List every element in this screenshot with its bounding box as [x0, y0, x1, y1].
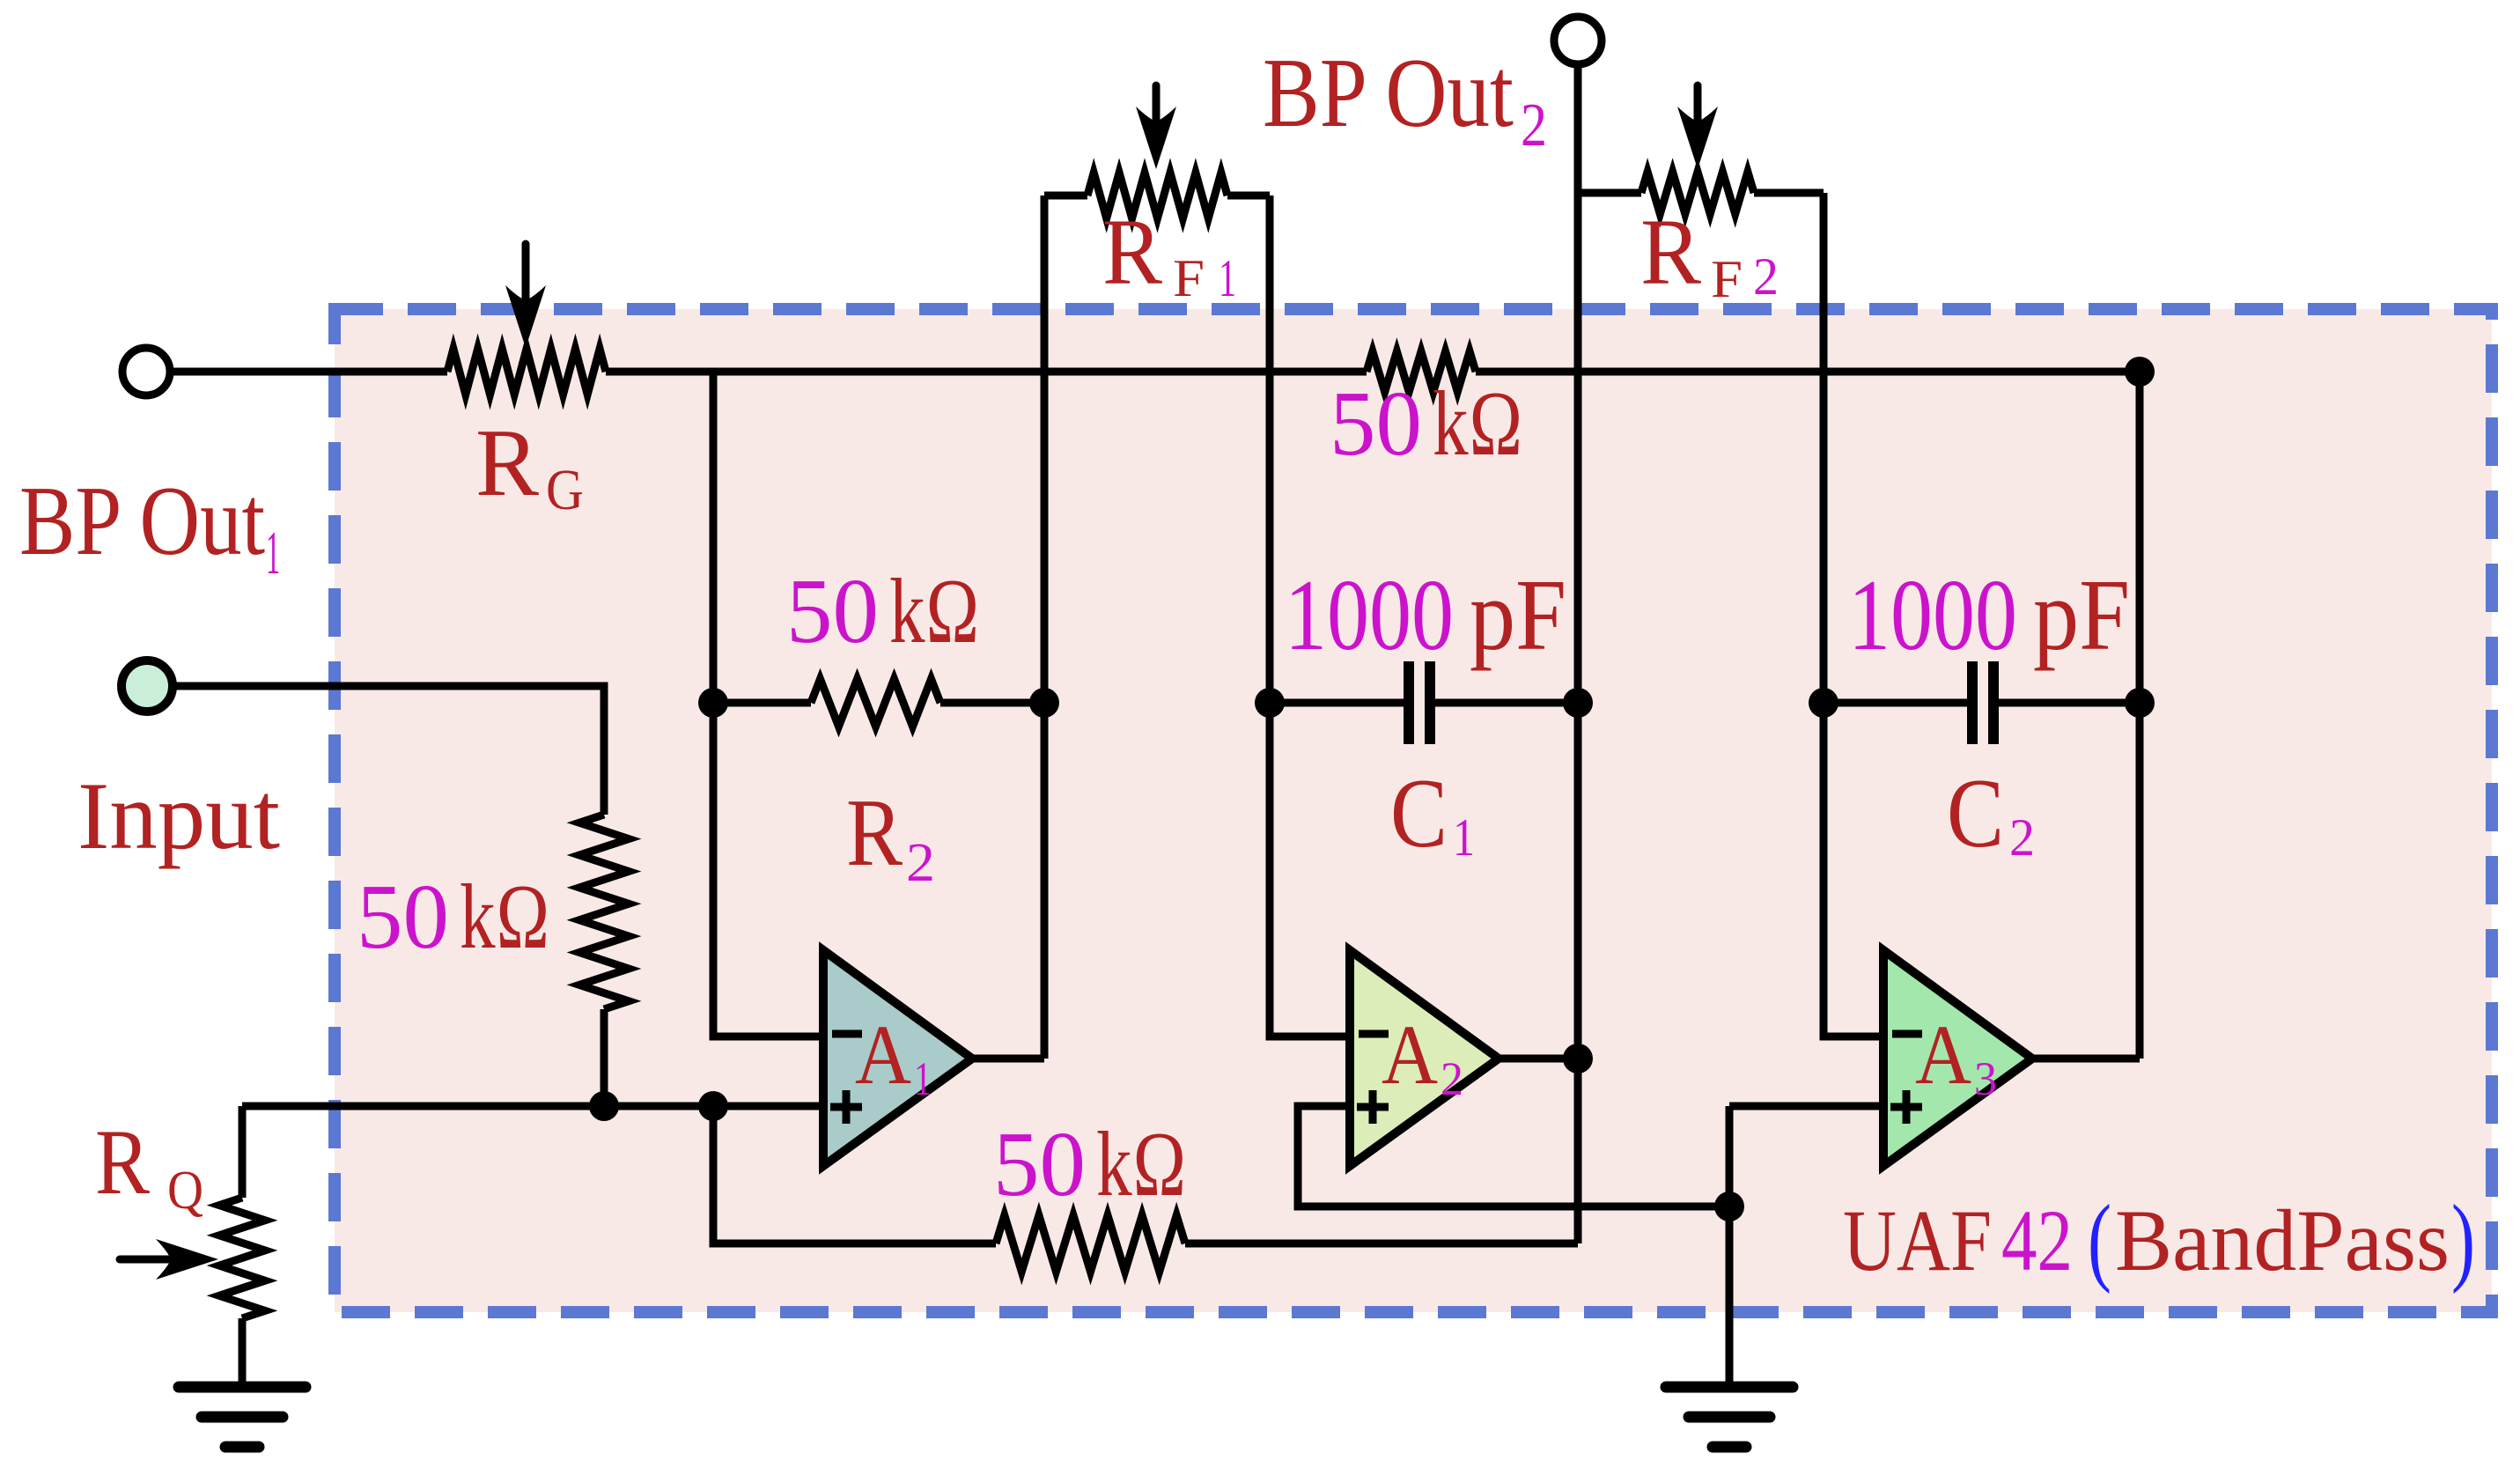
ground below A3 + node — [1666, 1387, 1793, 1447]
svg-text:3: 3 — [1974, 1052, 1997, 1105]
label RQ — [95, 1110, 203, 1221]
node R2 right — [1029, 688, 1059, 718]
node A2 output — [1563, 1044, 1593, 1074]
svg-text:2: 2 — [1441, 1052, 1463, 1105]
resistor RQ (potentiometer with arrow, vertical) — [120, 1198, 265, 1318]
svg-text:50: 50 — [1330, 372, 1422, 475]
svg-text:50: 50 — [993, 1112, 1086, 1215]
svg-text:R: R — [475, 409, 539, 516]
label C1 — [1390, 759, 1475, 868]
svg-text:1: 1 — [1453, 808, 1475, 867]
terminal Input — [122, 660, 173, 712]
svg-text:Input: Input — [77, 763, 280, 869]
svg-text:2: 2 — [1753, 247, 1779, 306]
svg-text:1000: 1000 — [1285, 559, 1454, 671]
svg-text:kΩ: kΩ — [1433, 372, 1523, 475]
label C2 — [1947, 759, 2035, 868]
node C2 right — [2125, 688, 2155, 718]
svg-text:50: 50 — [357, 865, 449, 968]
resistor RF2 (potentiometer with arrow) — [1641, 85, 1754, 214]
terminal BP Out1 — [122, 348, 170, 395]
UAF42 chip boundary (pink region with dashed blue border) — [335, 309, 2492, 1312]
wire: A3 output up right column to top rail — [2032, 372, 2140, 1059]
svg-text:BP Out: BP Out — [19, 467, 265, 576]
svg-text:F: F — [1711, 250, 1743, 308]
svg-text:BandPass: BandPass — [2115, 1192, 2450, 1289]
svg-text:): ) — [2451, 1185, 2475, 1295]
resistor RG (potentiometer with arrow) — [447, 244, 606, 395]
wire: RF1 bridge leads — [1044, 192, 1270, 200]
capacitor C1 — [1409, 661, 1430, 744]
svg-text:kΩ: kΩ — [889, 559, 980, 662]
node C1 left — [1255, 688, 1285, 718]
wire: A3 non-inverting input from ground node — [1729, 1106, 1883, 1382]
op-amp A3 — [1883, 950, 2032, 1166]
svg-text:A: A — [1915, 1007, 1971, 1102]
node C1 right / BP Out2 — [1563, 688, 1593, 718]
wire: bottom 50k feedback from A1 + node to A2 output — [713, 1106, 1578, 1243]
label RF1 — [1102, 201, 1236, 307]
svg-text:kΩ: kΩ — [460, 865, 550, 968]
label 50kOhm R2 value — [786, 559, 980, 662]
capacitor C2 — [1972, 661, 1993, 744]
wire: top rail from BP Out1 through RG and 50k top — [171, 368, 2140, 376]
label BP Out2 — [1263, 39, 1547, 159]
svg-text:A: A — [1382, 1007, 1438, 1102]
wire: A2 non-inverting input loop to ground node — [1298, 1106, 1729, 1206]
node R2 left — [698, 688, 728, 718]
svg-text:1: 1 — [266, 520, 280, 587]
label Input — [77, 763, 280, 869]
ground below RQ — [179, 1387, 306, 1447]
svg-text:kΩ: kΩ — [1096, 1112, 1187, 1215]
label R2 — [846, 779, 935, 893]
wire: A1 non-inverting input rail — [242, 1103, 823, 1110]
op-amp A1 — [823, 950, 972, 1166]
svg-text:Q: Q — [167, 1161, 203, 1221]
wire: RF2 bridge leads — [1578, 189, 1824, 197]
wire: R2 leads — [713, 699, 1044, 707]
svg-text:R: R — [1102, 201, 1163, 305]
svg-text:2: 2 — [906, 833, 935, 893]
resistor 50k input (vertical) — [579, 815, 629, 1009]
svg-text:pF: pF — [2033, 559, 2130, 671]
wire: C2 leads — [1824, 699, 2140, 707]
wire: Input lead down through input 50k resistor — [173, 686, 604, 1106]
node top rail right — [2125, 357, 2155, 387]
svg-text:1: 1 — [914, 1052, 932, 1105]
wire: RF2 right leg down to C2 left / A3 inverting input — [1824, 193, 1883, 1037]
label RF2 — [1640, 201, 1779, 308]
label UAF42 (BandPass) — [1843, 1185, 2475, 1295]
wire: RF1 right leg down to C1 left / A2 inverting input — [1270, 196, 1350, 1037]
svg-text:2: 2 — [1521, 92, 1547, 159]
svg-text:F: F — [1173, 249, 1205, 307]
label RG — [475, 409, 584, 522]
svg-text:UAF: UAF — [1843, 1192, 1992, 1289]
node A1 + input — [698, 1091, 728, 1121]
label 1000pF C1 — [1285, 559, 1566, 671]
svg-text:pF: pF — [1470, 559, 1566, 671]
svg-text:50: 50 — [786, 559, 879, 662]
wire: A2 output to node — [1499, 1055, 1578, 1063]
resistor R2 — [811, 679, 940, 727]
svg-text:2: 2 — [2009, 808, 2035, 867]
label BP Out1 — [19, 467, 280, 587]
wire: C1 leads — [1270, 699, 1578, 707]
svg-text:(: ( — [2088, 1185, 2111, 1295]
svg-text:1: 1 — [1219, 249, 1236, 307]
label 50kOhm top — [1330, 372, 1523, 475]
terminal BP Out2 — [1554, 17, 1602, 64]
svg-text:C: C — [1947, 759, 2004, 868]
node C2 left — [1809, 688, 1838, 718]
svg-text:1000: 1000 — [1848, 559, 2017, 671]
resistor 50k bottom — [996, 1215, 1185, 1272]
svg-text:A: A — [855, 1007, 911, 1102]
svg-text:G: G — [546, 458, 584, 522]
svg-text:42: 42 — [2001, 1192, 2073, 1289]
label 50kOhm input resistor — [357, 865, 550, 968]
resistor 50k top — [1367, 351, 1476, 392]
label 50kOhm bottom — [993, 1112, 1187, 1215]
wire: top rail tap down to R2 left and A1 inverting input — [713, 372, 823, 1037]
svg-text:C: C — [1390, 759, 1448, 868]
label 1000pF C2 — [1848, 559, 2130, 671]
node A3 + / ground — [1714, 1192, 1744, 1221]
node Input/RQ junction — [589, 1091, 619, 1121]
wire: BP Out2 stem down through C1 right node to bottom 50k — [1574, 65, 1582, 1243]
svg-text:BP Out: BP Out — [1263, 39, 1514, 148]
resistor RF1 (potentiometer with arrow) — [1087, 85, 1227, 218]
op-amp A2 — [1350, 950, 1499, 1166]
wire: RQ branch down to ground — [239, 1106, 247, 1382]
svg-text:R: R — [95, 1110, 150, 1214]
svg-text:R: R — [846, 779, 903, 886]
wire: RF1 left leg down to A1 output node — [972, 196, 1044, 1059]
svg-text:R: R — [1640, 201, 1702, 305]
